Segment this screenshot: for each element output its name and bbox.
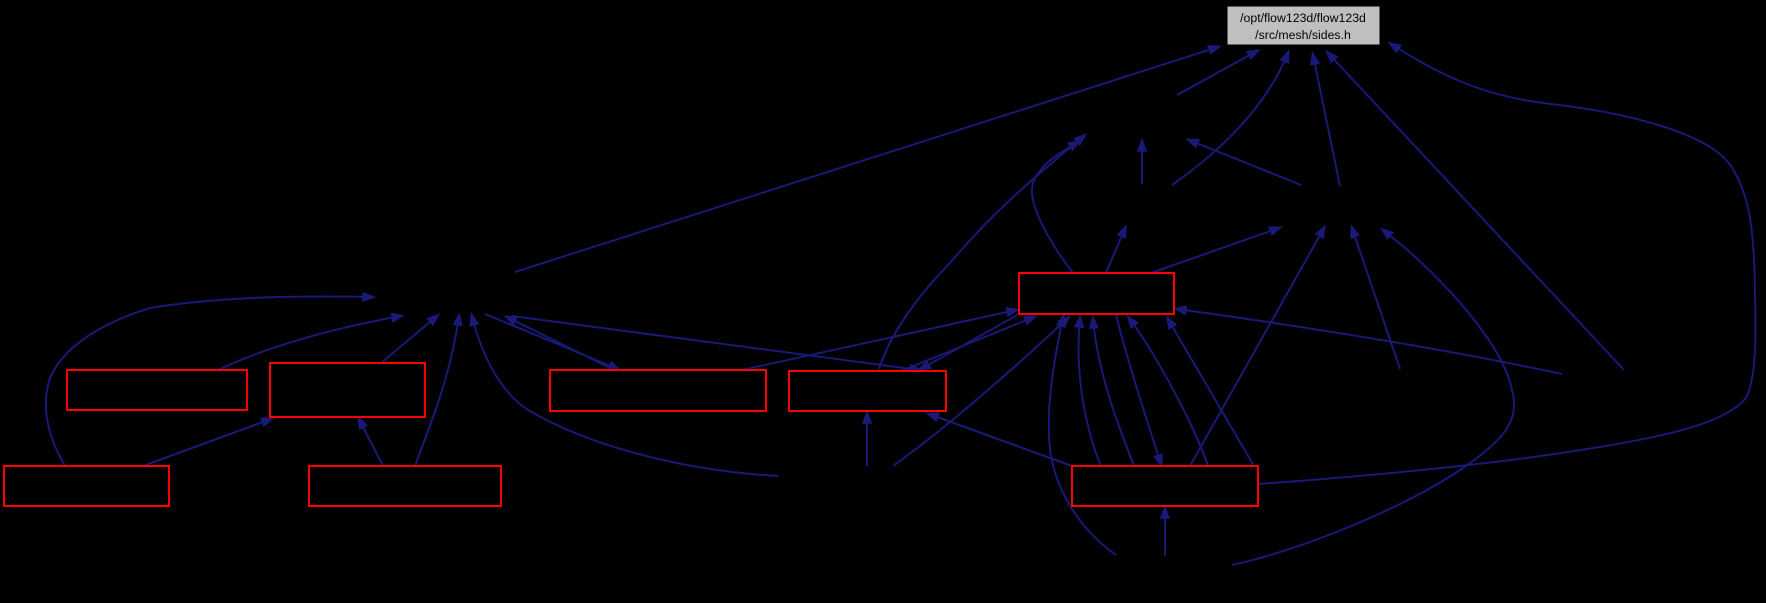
wire edge box6 to A bbox=[879, 136, 1084, 369]
wire edge box8 to box6 bbox=[929, 414, 1072, 466]
wire edge box8 to root bbox=[1258, 44, 1756, 484]
wire edge box4 to box2 bbox=[359, 419, 383, 466]
node box6 bbox=[789, 371, 946, 411]
wire edge box4 to C bbox=[415, 316, 459, 466]
wire edge D2 to root bbox=[1328, 53, 1624, 370]
node root sides.h bbox=[1227, 6, 1380, 45]
wire edge C to box5 bbox=[485, 314, 618, 369]
wire edge box2 to C bbox=[381, 316, 437, 363]
node box5 bbox=[550, 370, 766, 411]
wire edge box6 to box7 bbox=[901, 317, 1034, 371]
wire edge F to C bbox=[472, 316, 778, 476]
wire edge D2 to box7 bbox=[1177, 309, 1562, 374]
wire edge box3 to box2 bbox=[143, 419, 271, 466]
wire edge D1 to B bbox=[1352, 228, 1400, 369]
wire edge box7 to box6 bbox=[921, 314, 1019, 369]
wire edge box5 to C bbox=[507, 317, 614, 370]
wire edge G to root bbox=[1172, 53, 1288, 185]
node box7 bbox=[1019, 273, 1174, 314]
svg-text:/opt/flow123d/flow123d: /opt/flow123d/flow123d bbox=[1240, 11, 1366, 25]
wire edge box7 to G bbox=[1106, 228, 1125, 273]
wire edge B to root bbox=[1313, 55, 1340, 186]
wire edge box8 to box7 c2 bbox=[1093, 319, 1134, 466]
node box1 bbox=[67, 370, 247, 410]
wire edge F to box6 bbox=[866, 414, 868, 466]
wire edge E to B bbox=[1232, 230, 1514, 565]
wire edge box8 to box7 c1 bbox=[1079, 318, 1101, 466]
wire edge box5 to box7 bbox=[742, 310, 1016, 370]
wire edge box3 to C bbox=[46, 296, 372, 466]
wire edge C to box6 bbox=[512, 316, 919, 370]
wire edge box7 to B bbox=[1151, 228, 1279, 273]
node box8 bbox=[1072, 466, 1258, 506]
node box3 bbox=[4, 466, 169, 506]
wire edge E to box7 bbox=[1049, 317, 1116, 555]
node box2 bbox=[270, 363, 425, 417]
wire edge box8 to box7 corner bbox=[1168, 319, 1254, 466]
wire edge box7 to box8 down bbox=[1116, 314, 1161, 464]
wire edge E to box8 bbox=[1164, 509, 1166, 556]
svg-text:/src/mesh/sides.h: /src/mesh/sides.h bbox=[1255, 28, 1351, 42]
wire edge C to root bbox=[515, 47, 1218, 272]
wire edge box1 to C bbox=[218, 316, 401, 370]
wire edge B to A bbox=[1189, 140, 1301, 185]
wire edge F to box7 bbox=[893, 318, 1068, 466]
node box4 bbox=[309, 466, 501, 506]
wire edge box8 to box7 c4 bbox=[1129, 318, 1208, 466]
wire edge G to A bbox=[1141, 142, 1143, 184]
wire edge box8 to B bbox=[1190, 228, 1324, 466]
wire edge box7 to A bbox=[1032, 142, 1078, 273]
wire edge A to root bbox=[1177, 51, 1257, 95]
